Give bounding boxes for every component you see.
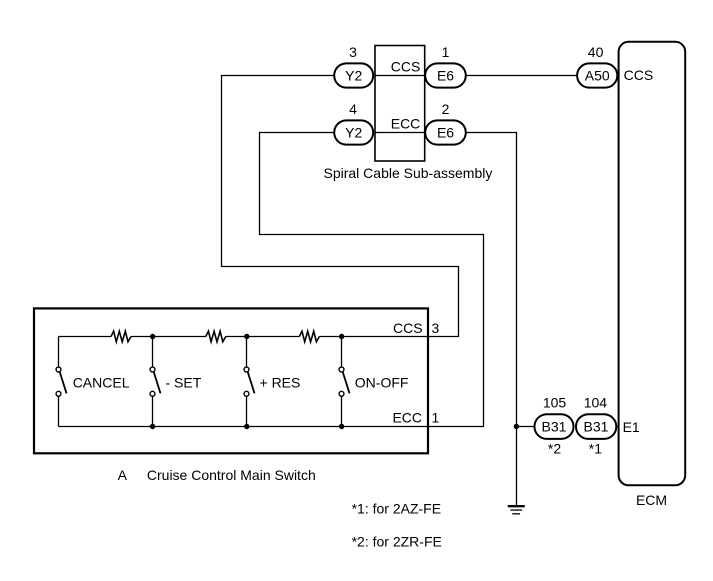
svg-text:1: 1 — [442, 44, 450, 60]
connector B31 pin 104 — [576, 414, 616, 439]
label ECC (switch pin row) — [392, 409, 422, 425]
svg-text:2: 2 — [442, 101, 450, 117]
svg-text:ECM: ECM — [636, 492, 667, 508]
footnote *1: for 2AZ-FE — [352, 500, 441, 516]
label ON-OFF — [355, 375, 409, 391]
svg-text:*2: for 2ZR-FE: *2: for 2ZR-FE — [352, 533, 442, 549]
switch CANCEL — [56, 337, 66, 427]
svg-text:A50: A50 — [585, 68, 610, 84]
svg-text:105: 105 — [543, 395, 567, 411]
svg-text:CANCEL: CANCEL — [73, 375, 130, 391]
label CCS (ECM pin) — [624, 67, 654, 83]
wire top bus CCS inside switch — [59, 336, 429, 338]
cruise control main switch box — [34, 308, 428, 453]
svg-text:*1: for 2AZ-FE: *1: for 2AZ-FE — [352, 500, 441, 516]
connector Y2 pin 3 — [334, 63, 373, 87]
switch ON-OFF — [339, 337, 349, 427]
label E1 (ECM pin) — [623, 419, 640, 435]
resistor R1 — [111, 331, 131, 342]
pin number 1 — [442, 44, 450, 60]
svg-text:B31: B31 — [542, 419, 567, 435]
label A Cruise Control Main Switch — [118, 467, 316, 483]
pin number 4 — [349, 101, 357, 117]
label CCS (switch pin row) — [393, 320, 423, 336]
svg-text:ECC: ECC — [392, 409, 422, 425]
pin number 104 — [584, 395, 608, 411]
svg-text:+ RES: + RES — [260, 375, 301, 391]
svg-text:3: 3 — [349, 44, 357, 60]
pin number 40 — [588, 44, 604, 60]
svg-text:A: A — [118, 467, 128, 483]
switch + RES — [244, 337, 254, 427]
connector A50 pin 40 — [577, 63, 617, 87]
footnote marker *1 — [589, 440, 602, 456]
wire ECC row inside spiral cable box — [375, 132, 425, 134]
spiral cable sub-assembly box — [375, 46, 425, 162]
wire E6 pin 1 to A50 — [466, 75, 577, 77]
junction top bus at RES branch — [244, 334, 249, 339]
svg-text:CCS: CCS — [624, 67, 654, 83]
wire CCS: switch box to connector Y2 pin 3 — [222, 76, 459, 337]
resistor R3 — [299, 331, 319, 342]
svg-text:E6: E6 — [437, 125, 454, 141]
wire junction to B31 pin 105 — [516, 426, 534, 428]
wire B31 pin 104 to ECM E1 — [614, 426, 619, 428]
junction bottom bus at SET branch — [150, 424, 155, 429]
svg-text:CCS: CCS — [391, 58, 421, 74]
svg-text:Y2: Y2 — [345, 68, 362, 84]
pin number 3 — [349, 44, 357, 60]
svg-text:ECC: ECC — [391, 115, 421, 131]
svg-text:4: 4 — [349, 101, 357, 117]
ground — [508, 506, 525, 514]
svg-text:Cruise Control Main Switch: Cruise Control Main Switch — [147, 467, 316, 483]
label - SET — [166, 375, 202, 391]
junction top bus at SET branch — [150, 334, 155, 339]
wire CCS row inside spiral cable box — [375, 75, 425, 77]
svg-text:B31: B31 — [584, 419, 609, 435]
svg-text:ON-OFF: ON-OFF — [355, 375, 409, 391]
wire ECC: switch box to connector Y2 pin 4 — [260, 133, 484, 427]
label ECC (spiral cable pin row) — [391, 115, 421, 131]
connector E6 pin 1 — [425, 63, 466, 87]
svg-text:*2: *2 — [548, 440, 561, 456]
wire bottom bus ECC inside switch — [59, 426, 429, 428]
junction node at ground wire / B31 branch — [514, 424, 519, 429]
footnote marker *2 — [548, 440, 561, 456]
junction bottom bus at ON-OFF branch — [339, 424, 344, 429]
ECM block — [619, 42, 686, 486]
junction bottom bus at RES branch — [244, 424, 249, 429]
connector Y2 pin 4 — [334, 120, 373, 144]
svg-text:CCS: CCS — [393, 320, 423, 336]
connector B31 pin 105 — [535, 414, 574, 439]
pin number 2 — [442, 101, 450, 117]
pin number 105 — [543, 395, 567, 411]
svg-text:Spiral Cable Sub-assembly: Spiral Cable Sub-assembly — [324, 165, 493, 181]
svg-text:1: 1 — [432, 409, 440, 425]
svg-text:E1: E1 — [623, 419, 640, 435]
svg-text:104: 104 — [584, 395, 608, 411]
svg-text:E6: E6 — [437, 68, 454, 84]
connector E6 pin 2 — [425, 120, 466, 144]
svg-text:40: 40 — [588, 44, 604, 60]
svg-text:Y2: Y2 — [345, 125, 362, 141]
pin number 1 (switch) — [432, 409, 440, 425]
switch - SET — [150, 337, 160, 427]
svg-text:*1: *1 — [589, 440, 602, 456]
label Spiral Cable Sub-assembly — [324, 165, 493, 181]
pin number 3 (switch) — [432, 320, 440, 336]
label + RES — [260, 375, 301, 391]
svg-text:- SET: - SET — [166, 375, 202, 391]
junction top bus at ON-OFF branch — [339, 334, 344, 339]
label CANCEL — [73, 375, 130, 391]
resistor R2 — [206, 331, 226, 342]
svg-text:3: 3 — [432, 320, 440, 336]
label ECM — [636, 492, 667, 508]
footnote *2: for 2ZR-FE — [352, 533, 442, 549]
wire E6 pin 2 to ground node — [466, 133, 517, 506]
label CCS (spiral cable pin row) — [391, 58, 421, 74]
